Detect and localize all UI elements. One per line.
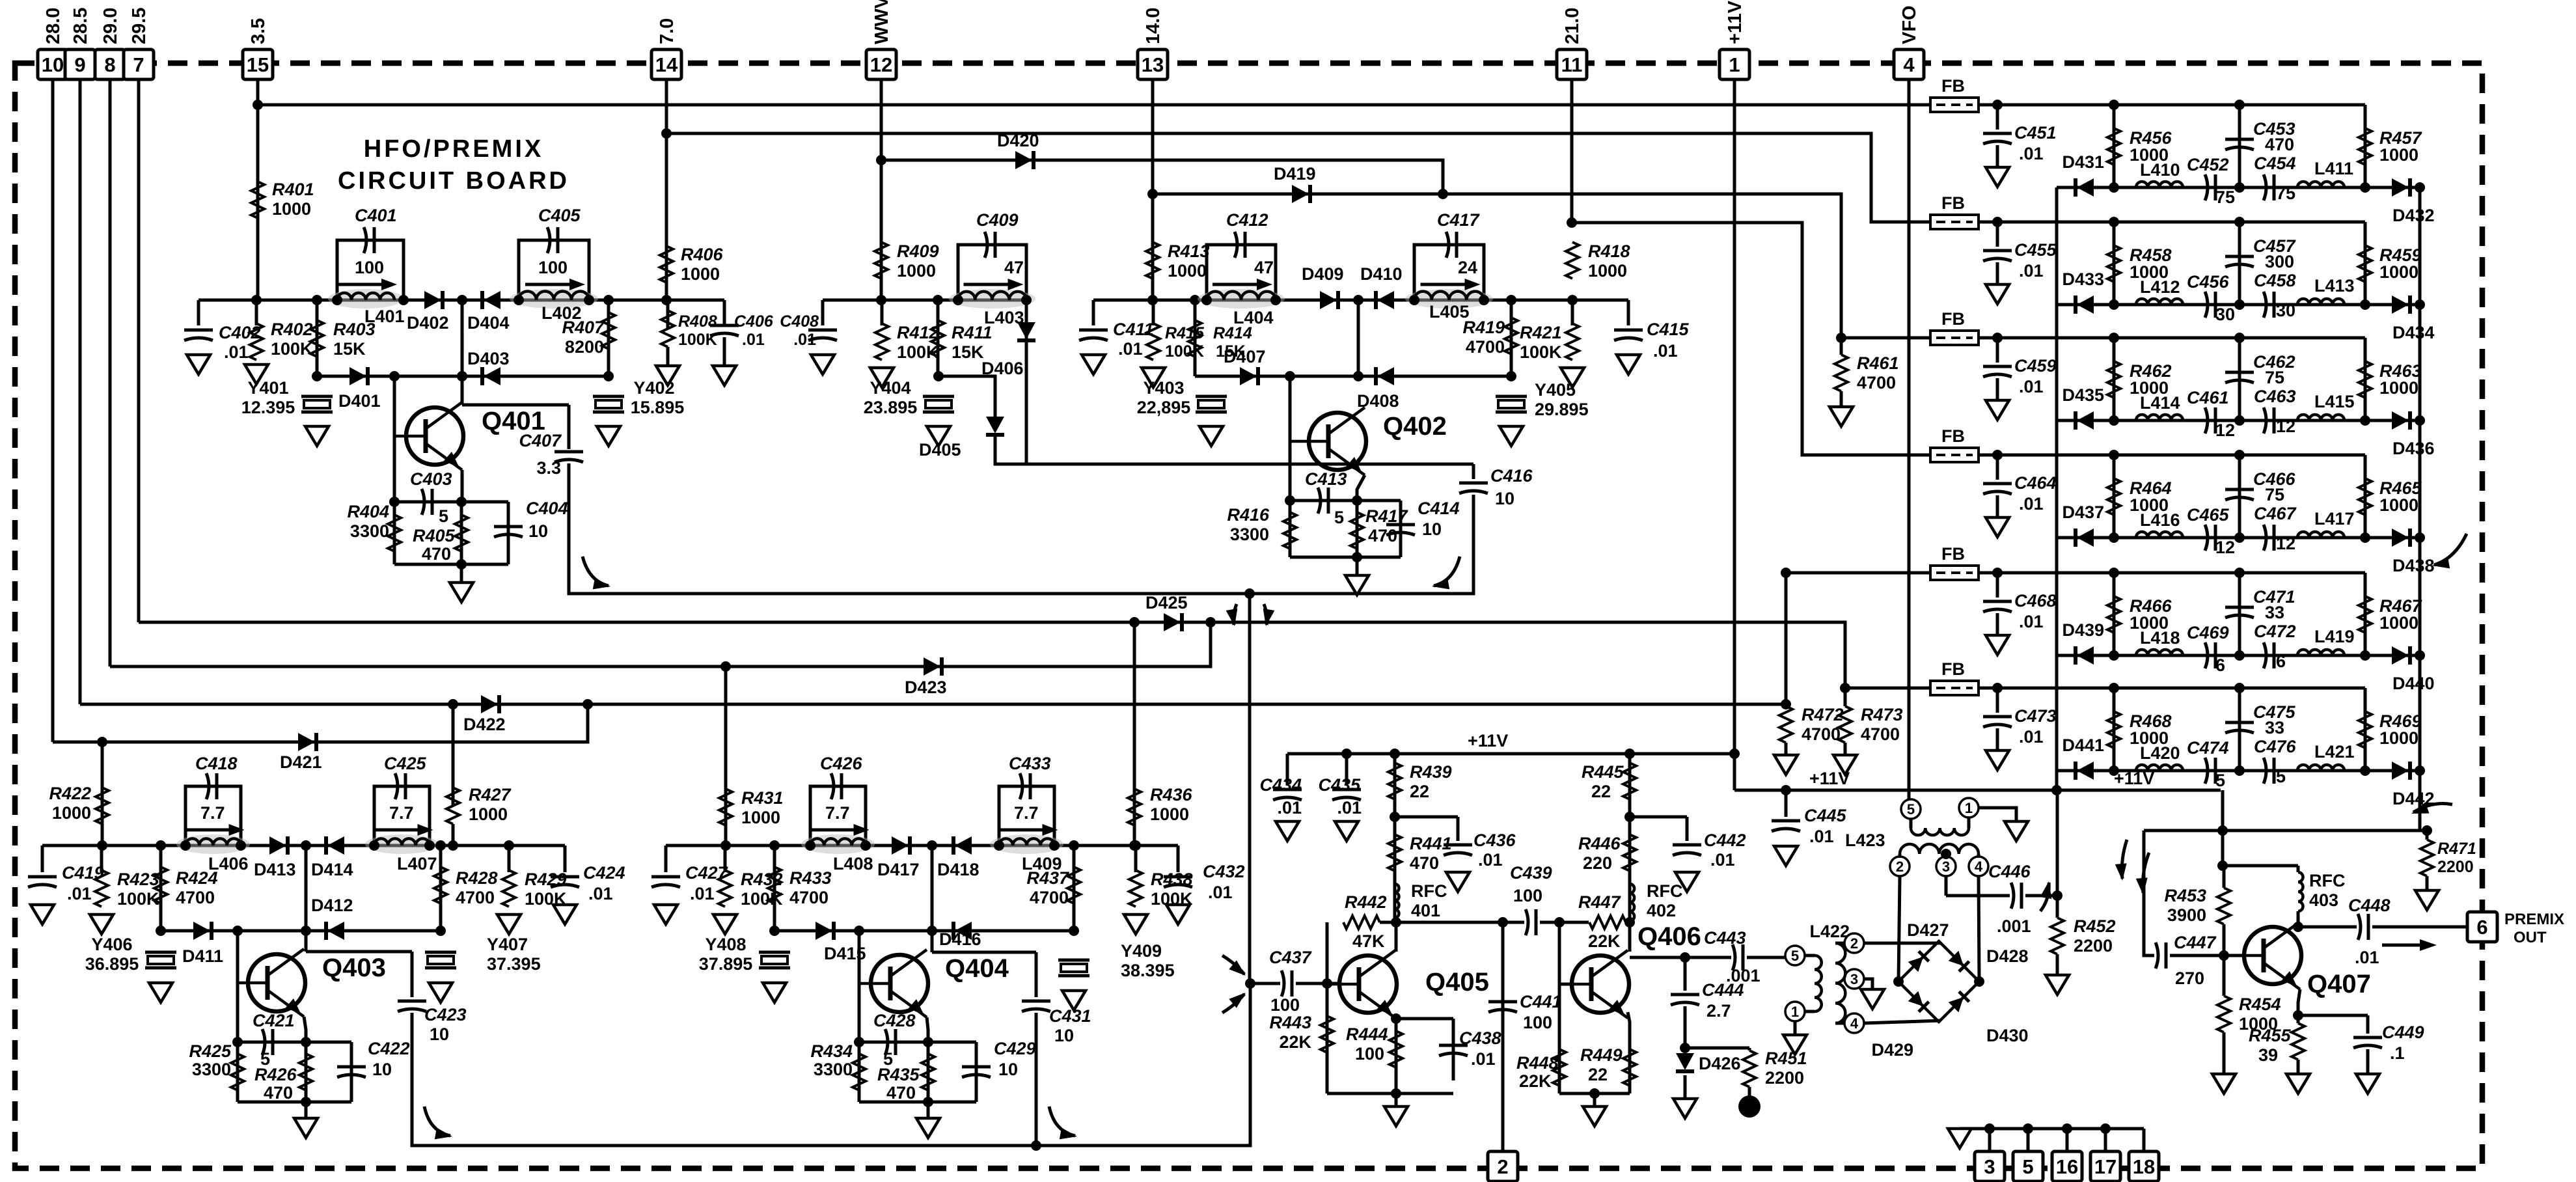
inductor L403 xyxy=(949,289,1035,309)
crystal Y403 xyxy=(1196,395,1227,398)
wire C448 to terminal 6 xyxy=(2372,926,2467,929)
svg-text:Y404: Y404 xyxy=(870,378,911,398)
svg-text:C455: C455 xyxy=(2014,240,2057,260)
ferrite bead FB row6 xyxy=(1930,681,1979,695)
wire xyxy=(2056,954,2059,975)
diode D426 xyxy=(1676,1053,1694,1070)
capacitor C461 xyxy=(2205,407,2208,433)
wire Q403 base leg xyxy=(236,931,240,1042)
resistor R446 xyxy=(1623,834,1636,871)
capacitor C432 xyxy=(1164,875,1192,879)
svg-text:7.7: 7.7 xyxy=(389,803,414,823)
wire R473 leg xyxy=(1844,688,1847,706)
capacitor C459 xyxy=(1983,365,2012,368)
inductor L420 xyxy=(2136,765,2183,771)
wire R468 leg xyxy=(2113,688,2116,771)
wire bottom ground rail xyxy=(1960,1127,2144,1131)
svg-text:75: 75 xyxy=(2276,184,2295,203)
svg-text:D418: D418 xyxy=(937,860,980,879)
diode D402 xyxy=(424,291,441,309)
svg-text:D427: D427 xyxy=(1907,920,1949,940)
resistor R439 xyxy=(1388,763,1401,799)
wire C409 loop xyxy=(958,245,1026,300)
diode D419 xyxy=(1292,185,1309,203)
wire Q405 emitter leg xyxy=(1395,1019,1398,1093)
svg-text:D403: D403 xyxy=(467,349,510,368)
capacitor C441 xyxy=(1488,1000,1517,1004)
capacitor C458 xyxy=(2264,292,2266,318)
diode D431 xyxy=(2077,178,2094,197)
diode D441 xyxy=(2077,762,2094,780)
resistor R464 xyxy=(2107,478,2120,515)
svg-text:R423: R423 xyxy=(117,870,159,889)
pin 3 L422 xyxy=(1844,969,1864,989)
resistor R425 xyxy=(231,1054,244,1090)
svg-text:PREMIX: PREMIX xyxy=(2504,911,2564,928)
ground Y402 xyxy=(597,426,620,446)
inductor RFC403 xyxy=(2298,872,2303,911)
svg-text:R439: R439 xyxy=(1410,762,1452,782)
node D420/D419 join xyxy=(1438,189,1448,199)
svg-text:33: 33 xyxy=(2265,718,2284,737)
ground R432 xyxy=(713,914,737,934)
terminal 18 xyxy=(2129,1151,2159,1181)
svg-text:R408: R408 xyxy=(678,312,717,331)
svg-text:FB: FB xyxy=(1941,76,1965,96)
wire R469 leg xyxy=(2364,688,2367,771)
svg-text:D422: D422 xyxy=(463,715,506,734)
terminal 8 xyxy=(95,49,125,79)
wire Q402 emitter down xyxy=(1357,475,1365,501)
svg-text:100: 100 xyxy=(1523,1013,1552,1032)
wire row4 rail xyxy=(1979,454,2365,457)
svg-text:47K: 47K xyxy=(1352,931,1385,951)
svg-text:C468: C468 xyxy=(2014,591,2057,611)
svg-text:4700: 4700 xyxy=(1030,888,1069,907)
capacitor C407 xyxy=(555,450,583,454)
wire C416 to mixer bus xyxy=(1250,495,1473,594)
capacitor C442 xyxy=(1673,844,1701,847)
ground Q404 xyxy=(916,1118,940,1138)
svg-text:R418: R418 xyxy=(1588,241,1630,261)
wire R424 leg xyxy=(159,845,163,931)
wire to C411 xyxy=(1092,300,1095,325)
svg-text:11: 11 xyxy=(1561,53,1583,76)
capacitor C401 xyxy=(364,227,366,253)
wire from terminal 1 (+11V) down xyxy=(1733,79,1736,790)
diode ring D427 D428 D429 D430 xyxy=(1898,941,1979,1022)
svg-text:C406: C406 xyxy=(734,312,774,331)
svg-text:2.7: 2.7 xyxy=(1706,1001,1731,1021)
pin 4 L422 xyxy=(1844,1013,1864,1033)
wire to C438 xyxy=(1396,1017,1453,1021)
ground Q406 xyxy=(1583,1106,1606,1126)
inductor L418 xyxy=(2136,650,2183,655)
svg-text:L422: L422 xyxy=(1809,922,1850,941)
arrow at C416 bend xyxy=(1434,557,1460,586)
diode D437 xyxy=(2077,529,2094,547)
ground C459 xyxy=(1986,400,2009,420)
diode D416 xyxy=(955,922,972,940)
svg-text:R405: R405 xyxy=(413,526,456,545)
ground C436 xyxy=(1446,872,1470,892)
svg-text:D434: D434 xyxy=(2392,323,2435,342)
svg-text:C424: C424 xyxy=(583,863,625,883)
svg-text:100: 100 xyxy=(1513,886,1542,905)
wire R458 leg xyxy=(2113,222,2116,305)
svg-text:L410: L410 xyxy=(2140,160,2180,180)
inductor L409 xyxy=(990,834,1063,854)
svg-text:L423: L423 xyxy=(1845,831,1885,850)
resistor R401 xyxy=(251,182,264,218)
resistor R414 xyxy=(1188,320,1201,357)
node collector diode line xyxy=(457,371,467,381)
svg-text:D435: D435 xyxy=(2062,385,2104,405)
svg-text:Y405: Y405 xyxy=(1535,380,1576,400)
svg-text:1: 1 xyxy=(1729,53,1740,76)
svg-text:L415: L415 xyxy=(2314,392,2355,411)
svg-text:C405: C405 xyxy=(538,206,581,225)
svg-text:.01: .01 xyxy=(1337,798,1362,818)
svg-text:C445: C445 xyxy=(1804,806,1847,825)
ground C464 xyxy=(1986,517,2009,537)
wire to C419 xyxy=(41,845,44,872)
svg-text:220: 220 xyxy=(1583,853,1612,873)
capacitor C431 xyxy=(1022,1000,1050,1003)
svg-text:R451: R451 xyxy=(1765,1049,1807,1068)
capacitor C434 xyxy=(1273,788,1302,791)
ground Q403 xyxy=(294,1118,318,1138)
svg-text:R419: R419 xyxy=(1462,318,1505,337)
svg-text:C435: C435 xyxy=(1318,775,1361,795)
svg-text:D441: D441 xyxy=(2062,735,2104,755)
svg-text:TP: TP xyxy=(1743,1103,1757,1114)
svg-text:2200: 2200 xyxy=(1765,1068,1804,1088)
wire R433 leg xyxy=(773,845,776,931)
svg-text:+11V: +11V xyxy=(1809,769,1850,788)
wire R462 leg xyxy=(2113,338,2116,420)
diode D414 xyxy=(327,836,344,855)
wire to C436 xyxy=(1395,816,1458,819)
svg-text:C448: C448 xyxy=(2348,896,2391,915)
wire row5 filter line xyxy=(2057,654,2420,657)
svg-text:D438: D438 xyxy=(2392,556,2435,575)
node terminal 17 xyxy=(2100,1123,2111,1134)
inductor L402 xyxy=(510,289,598,309)
wire C462 leg xyxy=(2238,338,2241,420)
svg-text:D416: D416 xyxy=(939,929,981,949)
node D413/D414 xyxy=(301,840,311,851)
inductor L414 xyxy=(2136,415,2183,420)
wire R415 xyxy=(1152,300,1155,325)
svg-text:D436: D436 xyxy=(2392,439,2435,458)
wire C422 leg xyxy=(350,1042,353,1102)
ground C402 xyxy=(187,355,210,374)
wire C449 leg xyxy=(2366,1015,2370,1034)
wire to ground xyxy=(460,564,463,583)
svg-text:37.895: 37.895 xyxy=(699,954,753,974)
svg-text:4700: 4700 xyxy=(789,888,829,907)
capacitor C448 xyxy=(2358,914,2361,940)
svg-text:R443: R443 xyxy=(1269,1013,1311,1032)
resistor R447 xyxy=(1589,916,1626,929)
capacitor C424 xyxy=(551,875,579,879)
resistor R422 xyxy=(96,788,109,824)
svg-text:WWV: WWV xyxy=(871,0,892,44)
svg-text:2: 2 xyxy=(1497,1155,1508,1178)
svg-text:D411: D411 xyxy=(182,946,223,966)
svg-text:.01: .01 xyxy=(67,884,92,903)
wire R425 leg xyxy=(236,1042,240,1102)
svg-text:C404: C404 xyxy=(526,499,568,518)
capacitor C462 xyxy=(2225,371,2254,374)
svg-text:1000: 1000 xyxy=(272,199,311,219)
diode D442 xyxy=(2392,762,2409,780)
wire block2 left main line xyxy=(823,299,1026,302)
capacitor C436 xyxy=(1444,844,1472,847)
svg-text:5: 5 xyxy=(1334,508,1344,527)
svg-text:10: 10 xyxy=(528,521,548,541)
resistor R438 xyxy=(1129,870,1142,907)
resistor R433 xyxy=(768,867,781,903)
wire R461 leg xyxy=(1840,338,1843,355)
svg-text:33: 33 xyxy=(2265,603,2284,622)
svg-text:100: 100 xyxy=(355,258,384,277)
wire from terminal 9 down xyxy=(79,79,82,704)
capacitor C468 xyxy=(1983,600,2012,603)
wire R403 leg xyxy=(316,300,319,376)
diode D423 xyxy=(924,657,940,676)
capacitor C453 xyxy=(2225,138,2254,141)
svg-text:10: 10 xyxy=(42,53,64,76)
inductor L422 secondary xyxy=(1835,943,1845,1023)
node 7.0 bus xyxy=(661,128,672,139)
svg-text:C411: C411 xyxy=(1113,320,1154,339)
wire from terminal 13 down xyxy=(1151,79,1155,300)
svg-text:D410: D410 xyxy=(1360,264,1403,284)
svg-text:4700: 4700 xyxy=(1802,724,1841,744)
diode D415 xyxy=(815,922,832,940)
node Q401 base xyxy=(389,371,400,381)
svg-text:+11V: +11V xyxy=(1468,731,1508,750)
terminal 2 xyxy=(1488,1151,1518,1181)
resistor R463 xyxy=(2359,361,2372,398)
wire row6 rail xyxy=(1979,687,2365,690)
resistor R441 xyxy=(1388,834,1401,871)
svg-text:+11V: +11V xyxy=(1725,0,1746,44)
svg-text:C465: C465 xyxy=(2187,505,2230,525)
capacitor C408 xyxy=(808,329,837,332)
svg-text:401: 401 xyxy=(1411,901,1440,920)
wire to C416 xyxy=(1472,464,1475,479)
ground D426 xyxy=(1673,1099,1697,1118)
arrow into right bus xyxy=(2434,534,2467,565)
svg-text:14.0: 14.0 xyxy=(1143,8,1164,44)
wire +11V bend down xyxy=(2221,790,2225,831)
node terminal 16 xyxy=(2062,1123,2072,1134)
svg-text:75: 75 xyxy=(2265,368,2284,387)
wire Q406 collector xyxy=(1628,922,1632,952)
svg-text:R428: R428 xyxy=(456,868,498,888)
ground R471 xyxy=(2415,890,2439,910)
ground Q402 xyxy=(1345,575,1369,595)
svg-text:1000: 1000 xyxy=(2379,378,2418,398)
svg-text:D439: D439 xyxy=(2062,620,2104,640)
ground Y407 xyxy=(429,983,452,1002)
node mixer input xyxy=(1245,978,1255,989)
svg-text:C418: C418 xyxy=(195,754,238,773)
svg-text:R446: R446 xyxy=(1578,834,1621,853)
resistor R427 xyxy=(446,788,459,824)
terminal 12 xyxy=(866,49,896,79)
svg-text:L407: L407 xyxy=(397,854,437,873)
resistor R455 xyxy=(2292,1023,2305,1060)
diode D440 xyxy=(2392,646,2409,665)
svg-text:.01: .01 xyxy=(588,884,613,903)
wire Q404 collector to C431 xyxy=(932,951,1036,954)
svg-text:.01: .01 xyxy=(224,342,249,362)
capacitor C426 xyxy=(831,773,834,799)
wire to R451 xyxy=(1685,1047,1749,1050)
wire pin3 gnd xyxy=(1864,979,1872,989)
svg-text:R435: R435 xyxy=(877,1065,920,1084)
wire 14 bus (D419) to FB row3 xyxy=(1153,194,1930,338)
resistor R456 xyxy=(2107,128,2120,165)
node WWV bus xyxy=(876,155,886,165)
svg-text:D432: D432 xyxy=(2392,206,2435,225)
wire +11V right rail xyxy=(1734,789,2221,792)
node 3.5 bus xyxy=(253,100,263,110)
svg-text:1000: 1000 xyxy=(897,261,936,281)
pin 3 L423 xyxy=(1936,857,1956,876)
wire C444 leg xyxy=(1684,957,1687,991)
wire R412 xyxy=(881,300,884,325)
ground Y401 xyxy=(305,426,329,446)
svg-text:C456: C456 xyxy=(2187,272,2230,292)
node Q403 base xyxy=(232,926,243,936)
wire R416 leg xyxy=(1289,501,1292,557)
terminal 11 xyxy=(1557,49,1587,79)
svg-text:75: 75 xyxy=(2265,485,2284,504)
diode D417 xyxy=(892,836,909,855)
resistor R434 xyxy=(853,1054,866,1090)
svg-text:C454: C454 xyxy=(2254,154,2296,173)
wire to ring top xyxy=(1864,942,1941,945)
wire filter left bus lower segment xyxy=(2056,790,2059,896)
node mixer drive xyxy=(1244,588,1255,599)
svg-text:22,895: 22,895 xyxy=(1137,398,1191,417)
ground R415 xyxy=(1142,368,1165,387)
ground Q405 xyxy=(1384,1106,1408,1126)
resistor R403 xyxy=(310,320,323,357)
svg-text:.01: .01 xyxy=(1478,850,1503,870)
wire C425 loop xyxy=(374,786,430,845)
wire block2 bias bottom xyxy=(1290,556,1401,559)
svg-text:.01: .01 xyxy=(2019,494,2044,514)
wire to C446 xyxy=(1946,894,2010,898)
svg-text:L412: L412 xyxy=(2140,277,2180,297)
wire from terminal 15 down xyxy=(256,79,260,300)
svg-text:D414: D414 xyxy=(311,860,353,879)
svg-text:OUT: OUT xyxy=(2514,929,2547,946)
diode D422 xyxy=(481,695,498,713)
ground R452 xyxy=(2046,975,2069,995)
capacitor C413 xyxy=(1318,488,1321,514)
diode D420 xyxy=(1015,151,1032,169)
svg-text:22: 22 xyxy=(1588,1065,1608,1084)
svg-text:CIRCUIT BOARD: CIRCUIT BOARD xyxy=(338,167,569,195)
inductor L407 xyxy=(365,834,439,854)
svg-text:30: 30 xyxy=(2215,305,2235,324)
crystal Y402 xyxy=(593,395,624,398)
svg-text:5: 5 xyxy=(2215,771,2225,790)
svg-text:5: 5 xyxy=(2022,1155,2033,1178)
svg-text:C412: C412 xyxy=(1226,210,1268,230)
wire R404 leg xyxy=(393,502,396,564)
capacitor C411 xyxy=(1079,329,1108,332)
capacitor C438 xyxy=(1439,1044,1468,1047)
svg-text:29.0: 29.0 xyxy=(100,8,121,44)
resistor R435 xyxy=(922,1054,935,1090)
capacitor C456 xyxy=(2205,292,2208,318)
svg-text:D428: D428 xyxy=(1986,946,2029,966)
wire to C423 xyxy=(411,952,414,997)
diode D408 xyxy=(1377,367,1394,385)
wire 29.0 bus (D423) xyxy=(110,622,1211,667)
diode D411 xyxy=(193,922,210,940)
svg-text:10: 10 xyxy=(1422,519,1442,539)
svg-text:10: 10 xyxy=(1054,1026,1074,1045)
wire C404 leg xyxy=(507,502,510,564)
ferrite bead FB row2 xyxy=(1930,215,1979,229)
capacitor C429 xyxy=(962,1065,991,1069)
svg-text:2: 2 xyxy=(1896,859,1904,875)
svg-text:22: 22 xyxy=(1591,782,1611,801)
wire to C434 xyxy=(1286,754,1289,786)
ground Y404 xyxy=(927,426,950,446)
wire row6 filter line xyxy=(2057,769,2420,773)
wire R454 leg xyxy=(2223,955,2226,996)
svg-text:R444: R444 xyxy=(1346,1024,1388,1044)
svg-text:D429: D429 xyxy=(1871,1040,1913,1060)
svg-text:C443: C443 xyxy=(1704,928,1746,948)
diode D433 xyxy=(2077,295,2094,314)
wire C426 loop xyxy=(810,786,866,845)
svg-text:.01: .01 xyxy=(742,331,765,349)
svg-text:C473: C473 xyxy=(2014,706,2057,726)
inductor L413 xyxy=(2297,299,2344,305)
svg-text:2200: 2200 xyxy=(2437,858,2474,876)
resistor R468 xyxy=(2107,711,2120,748)
wire C438 leg xyxy=(1452,1019,1455,1080)
svg-text:FB: FB xyxy=(1941,659,1965,679)
svg-text:12: 12 xyxy=(2215,538,2235,557)
arrow into mixer node L xyxy=(1233,604,1237,625)
svg-text:100: 100 xyxy=(1270,995,1300,1015)
svg-text:L421: L421 xyxy=(2314,742,2355,762)
inductor RFC401 xyxy=(1395,884,1399,918)
resistor R421 xyxy=(1566,323,1579,360)
svg-text:1000: 1000 xyxy=(681,264,720,284)
wire R459 leg xyxy=(2364,222,2367,305)
capacitor C409 xyxy=(985,232,987,258)
wire R414 leg xyxy=(1194,300,1197,376)
wire 28.0 bus (D421) xyxy=(53,704,588,742)
wire Q403 emitter down xyxy=(304,1017,306,1042)
wire R464 leg xyxy=(2113,455,2116,538)
svg-text:D420: D420 xyxy=(997,131,1039,150)
wire Q405 collector xyxy=(1395,922,1398,952)
